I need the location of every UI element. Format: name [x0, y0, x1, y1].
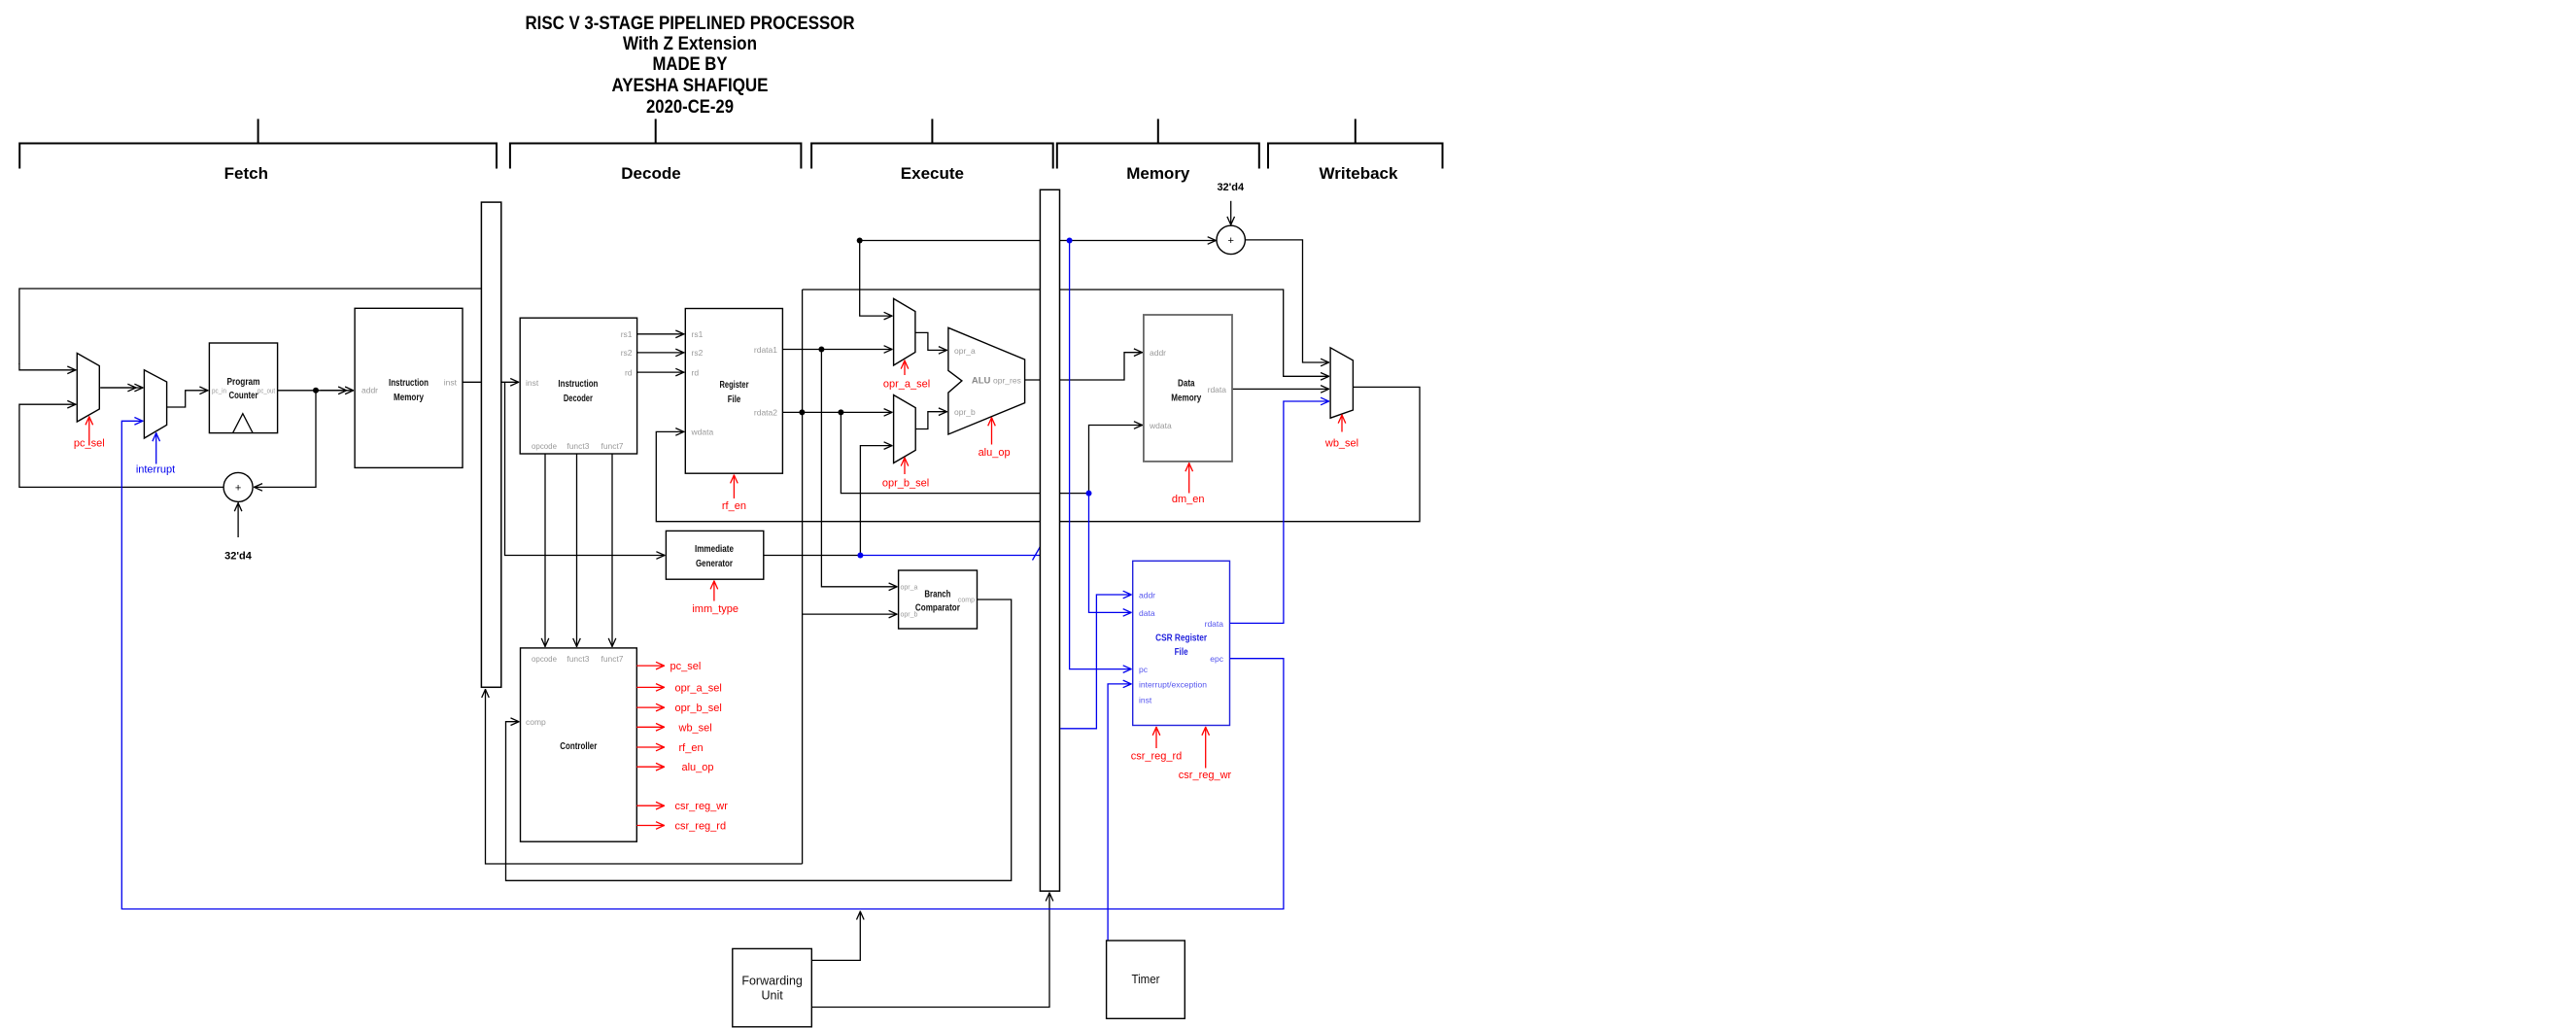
svg-text:alu_op: alu_op — [979, 447, 1011, 459]
svg-text:inst: inst — [1139, 696, 1152, 705]
svg-text:funct3: funct3 — [567, 654, 589, 664]
svg-text:comp: comp — [958, 598, 975, 604]
signal opr_b_sel — [882, 458, 929, 490]
svg-text:Instruction: Instruction — [389, 378, 429, 389]
signal out pc_sel — [636, 665, 665, 667]
signal alu_op — [979, 417, 1011, 459]
pipeline register IF/ID — [481, 202, 500, 687]
title block — [526, 14, 855, 118]
svg-text:pc_out: pc_out — [258, 389, 275, 395]
svg-text:rf_en: rf_en — [722, 500, 746, 512]
svg-text:rdata2: rdata2 — [754, 408, 777, 418]
svg-text:rd: rd — [625, 367, 633, 377]
svg-text:opr_b: opr_b — [954, 407, 976, 417]
svg-text:MADE BY: MADE BY — [653, 54, 728, 75]
wire rdata2 tap down to CSR data input — [1089, 494, 1132, 613]
ALU — [948, 327, 1025, 434]
svg-text:ALU: ALU — [972, 376, 991, 387]
svg-text:interrupt/exception: interrupt/exception — [1139, 679, 1207, 689]
svg-text:opr_a: opr_a — [954, 346, 976, 356]
wire branch comparator comp to controller comp — [506, 600, 1012, 880]
svg-text:csr_reg_rd: csr_reg_rd — [1131, 750, 1183, 762]
svg-text:CSR Register: CSR Register — [1155, 633, 1207, 643]
wire mux2 output jog to PC pc_in — [167, 391, 209, 407]
signal interrupt (blue) — [136, 432, 175, 475]
svg-text:addr: addr — [1150, 348, 1166, 358]
signal out wb_sel — [636, 726, 665, 728]
signal pc_sel — [74, 416, 105, 449]
instruction memory — [355, 308, 463, 467]
wire rdata2 bottom branch into IF/ID reg bottom — [486, 689, 803, 864]
wire immgen output (black segment) — [764, 555, 861, 557]
node imm wire colour change (blue) — [857, 553, 863, 559]
mux M1 pc_sel — [77, 354, 99, 423]
wire 32'd4 into adder1 — [237, 502, 239, 537]
svg-text:rdata: rdata — [1208, 385, 1227, 394]
svg-text:AYESHA SHAFIQUE: AYESHA SHAFIQUE — [612, 76, 769, 96]
svg-text:addr: addr — [1139, 591, 1155, 600]
wire DM rdata to writeback mux input3 — [1232, 388, 1329, 390]
svg-text:2020-CE-29: 2020-CE-29 — [646, 97, 734, 118]
wire adder2 output to writeback mux input1 — [1245, 240, 1329, 362]
forwarding unit — [733, 948, 812, 1026]
wire pc tap down to CSR pc input — [1070, 241, 1132, 669]
stage bracket Memory — [1057, 119, 1259, 168]
writeback mux wb_sel — [1330, 348, 1353, 418]
signal out csr_reg_rd — [636, 825, 665, 827]
svg-text:alu_op: alu_op — [682, 762, 714, 773]
wire immediate up to opr_b mux input2 — [860, 446, 892, 556]
wire EX/MEM reg tap to CSR addr input — [1060, 595, 1132, 729]
signal wb_sel — [1324, 415, 1358, 450]
svg-text:wdata: wdata — [1149, 421, 1172, 430]
svg-text:pc_sel: pc_sel — [670, 661, 702, 672]
svg-text:Program: Program — [227, 377, 260, 388]
signal imm_type — [692, 580, 738, 615]
wire pc+4 tap down to opr_a mux input1 — [860, 241, 893, 317]
svg-text:rdata1: rdata1 — [754, 345, 777, 355]
signal out alu_op — [636, 766, 665, 768]
svg-text:Counter: Counter — [229, 391, 258, 401]
svg-text:rf_en: rf_en — [679, 742, 704, 754]
instruction decoder — [520, 318, 636, 454]
svg-text:opr_a: opr_a — [901, 584, 918, 591]
wire mux1 output to mux2 input1 — [99, 387, 143, 389]
svg-text:rd: rd — [692, 367, 700, 377]
adder2 +4 memory — [1217, 225, 1245, 254]
wire pc_out to instruction memory addr — [278, 390, 355, 392]
svg-text:Immediate: Immediate — [695, 544, 734, 555]
wire writeback-to-pcmux feedback (wire A) — [19, 289, 482, 364]
svg-text:dm_en: dm_en — [1172, 494, 1205, 505]
wire opr_b mux output to ALU opr_b — [915, 412, 947, 429]
wire pc+4 line to adder2 — [860, 240, 1217, 242]
svg-text:Register: Register — [720, 380, 749, 391]
stage bracket Decode — [510, 119, 802, 168]
svg-text:csr_reg_wr: csr_reg_wr — [1179, 770, 1232, 781]
signal rf_en — [722, 474, 746, 512]
immediate generator — [666, 531, 763, 579]
signal out opr_a_sel — [636, 686, 665, 688]
svg-text:Decode: Decode — [621, 164, 680, 183]
wire timer to CSR interrupt/exception input — [1108, 684, 1132, 941]
svg-text:+: + — [1227, 235, 1233, 247]
stage bracket Execute — [811, 119, 1053, 168]
svg-text:Timer: Timer — [1132, 973, 1160, 986]
svg-text:Generator: Generator — [696, 559, 733, 569]
node pc+4 tap — [857, 238, 863, 244]
svg-text:+: + — [235, 482, 241, 494]
node pc/adder junction — [313, 388, 319, 394]
svg-text:Execute: Execute — [901, 164, 964, 183]
wire 32'd4 into adder2 — [1230, 201, 1232, 225]
signal out rf_en — [636, 746, 665, 748]
wire rdata2 vertical riser x825 — [802, 290, 804, 864]
svg-text:Controller: Controller — [560, 741, 597, 752]
signal csr_reg_wr — [1179, 727, 1232, 781]
wire rdata1 to opr_a mux input2 — [782, 349, 892, 351]
wire rdata1 branch down to branch comparator opr_a — [821, 350, 897, 587]
wire decoder rs2 to RF — [637, 352, 685, 354]
wire opr_a mux output to ALU opr_a — [915, 332, 947, 350]
adder1 +4 fetch — [223, 472, 253, 501]
svg-text:pc: pc — [1139, 665, 1149, 674]
svg-text:Memory: Memory — [1126, 164, 1190, 183]
svg-text:pc_in: pc_in — [212, 389, 226, 395]
wire CSR epc loop to interrupt mux2 — [121, 421, 1284, 908]
mux M2 interrupt — [144, 370, 166, 438]
svg-text:Unit: Unit — [761, 989, 783, 1003]
svg-text:Forwarding: Forwarding — [741, 975, 803, 988]
node rdata1 tap — [818, 347, 824, 353]
svg-text:opcode: opcode — [532, 441, 557, 451]
svg-text:rs2: rs2 — [621, 348, 633, 358]
wire decoder funct7 to controller — [611, 454, 613, 647]
svg-text:wb_sel: wb_sel — [1324, 438, 1358, 450]
wire forwarding unit output2 up into EX/MEM reg bottom — [811, 892, 1049, 1007]
svg-text:opr_b: opr_b — [901, 612, 918, 619]
svg-text:epc: epc — [1210, 654, 1223, 664]
node rdata2-to-CSR tap (blue) — [1086, 491, 1092, 497]
wire decoder rd to RF — [637, 371, 685, 373]
data memory — [1144, 315, 1232, 462]
signal out opr_b_sel — [636, 706, 665, 708]
svg-text:rs1: rs1 — [692, 329, 704, 339]
svg-text:opcode: opcode — [532, 654, 557, 664]
svg-text:File: File — [1175, 647, 1188, 658]
svg-text:With Z Extension: With Z Extension — [623, 34, 757, 54]
svg-text:Branch: Branch — [924, 590, 950, 600]
wire pc junction down to adder1 right input — [254, 391, 316, 488]
svg-text:Data: Data — [1178, 379, 1195, 390]
svg-text:rdata: rdata — [1205, 619, 1224, 629]
mux opr_b_sel — [894, 395, 916, 463]
svg-text:funct7: funct7 — [601, 441, 624, 451]
svg-text:32'd4: 32'd4 — [224, 551, 253, 563]
CSR register file — [1133, 561, 1230, 725]
wire ALU opr_res to data memory addr — [1025, 353, 1143, 380]
svg-text:wdata: wdata — [691, 428, 714, 437]
svg-text:opr_b_sel: opr_b_sel — [882, 478, 929, 490]
svg-text:Fetch: Fetch — [224, 164, 268, 183]
svg-text:comp: comp — [526, 717, 546, 727]
controller — [521, 648, 637, 841]
svg-text:imm_type: imm_type — [692, 603, 738, 615]
node pc-to-CSR tap (blue) — [1067, 238, 1073, 244]
svg-text:opr_a_sel: opr_a_sel — [883, 379, 930, 391]
wire inst from IM through IF/ID reg to decoder — [463, 381, 519, 383]
svg-text:opr_b_sel: opr_b_sel — [675, 702, 722, 714]
wire decoder opcode to controller — [544, 454, 546, 647]
wire decoder rs1 to RF — [637, 333, 685, 335]
svg-text:inst: inst — [526, 378, 539, 388]
svg-text:interrupt: interrupt — [136, 463, 175, 475]
register file — [685, 309, 782, 474]
svg-text:32'd4: 32'd4 — [1217, 182, 1245, 193]
junction dots — [313, 238, 863, 416]
signal csr_reg_rd — [1131, 727, 1183, 763]
signal out csr_reg_wr — [636, 805, 665, 806]
branch comparator — [899, 570, 978, 629]
signal dm_en — [1172, 463, 1205, 505]
wire rdata2 to opr_b mux input1 — [782, 411, 892, 413]
timer — [1107, 941, 1185, 1018]
wire rdata2 top branch to writeback mux input2 — [803, 290, 1330, 376]
svg-text:Memory: Memory — [394, 393, 424, 403]
svg-text:Instruction: Instruction — [558, 379, 598, 390]
svg-text:addr: addr — [361, 386, 378, 395]
controller output signals — [636, 666, 665, 825]
node rdata2 tap2 — [838, 409, 843, 415]
wire forwarding unit output1 up to epc line — [811, 911, 860, 961]
bus slash on imm wire — [1033, 547, 1041, 561]
wire rdata2 branch to branch comparator opr_b — [803, 613, 898, 615]
svg-text:funct7: funct7 — [601, 654, 624, 664]
wire rdata2 to data memory wdata — [841, 412, 1088, 493]
svg-text:funct3: funct3 — [567, 441, 589, 451]
node rdata2 tap1 — [799, 409, 805, 415]
wire writeback mux output loop to RF wdata — [656, 387, 1420, 521]
svg-text:File: File — [728, 394, 741, 405]
svg-text:pc_sel: pc_sel — [74, 438, 105, 450]
svg-text:csr_reg_wr: csr_reg_wr — [675, 801, 729, 812]
blue wires — [121, 241, 1329, 942]
wire immgen output imm (blue segment) to ID/EX reg — [860, 555, 1040, 557]
stage bracket Fetch — [19, 119, 497, 168]
svg-text:opr_a_sel: opr_a_sel — [675, 682, 722, 694]
wire adder1 output loop to mux1 input2 — [19, 404, 223, 487]
svg-text:rs1: rs1 — [621, 329, 633, 339]
svg-text:Writeback: Writeback — [1320, 164, 1398, 183]
mux opr_a_sel — [894, 298, 915, 365]
svg-text:RISC V 3-STAGE PIPELINED PROCE: RISC V 3-STAGE PIPELINED PROCESSOR — [526, 14, 855, 34]
svg-text:inst: inst — [444, 378, 458, 388]
svg-text:data: data — [1139, 608, 1155, 618]
svg-text:wb_sel: wb_sel — [678, 722, 712, 734]
signal opr_a_sel — [883, 360, 930, 391]
svg-text:opr_res: opr_res — [993, 376, 1021, 386]
wire CSR rdata to writeback mux input4 — [1230, 401, 1330, 623]
svg-text:Decoder: Decoder — [564, 394, 593, 404]
stage bracket Writeback — [1268, 119, 1443, 168]
svg-text:Memory: Memory — [1171, 394, 1201, 404]
svg-text:Comparator: Comparator — [915, 603, 960, 614]
svg-text:csr_reg_rd: csr_reg_rd — [675, 821, 727, 833]
pipeline register EX/MEM — [1040, 189, 1059, 891]
program counter — [209, 343, 277, 433]
wire inst branch down to immediate generator — [505, 382, 666, 555]
wire decoder funct3 to controller — [576, 454, 578, 647]
svg-text:rs2: rs2 — [692, 348, 704, 358]
